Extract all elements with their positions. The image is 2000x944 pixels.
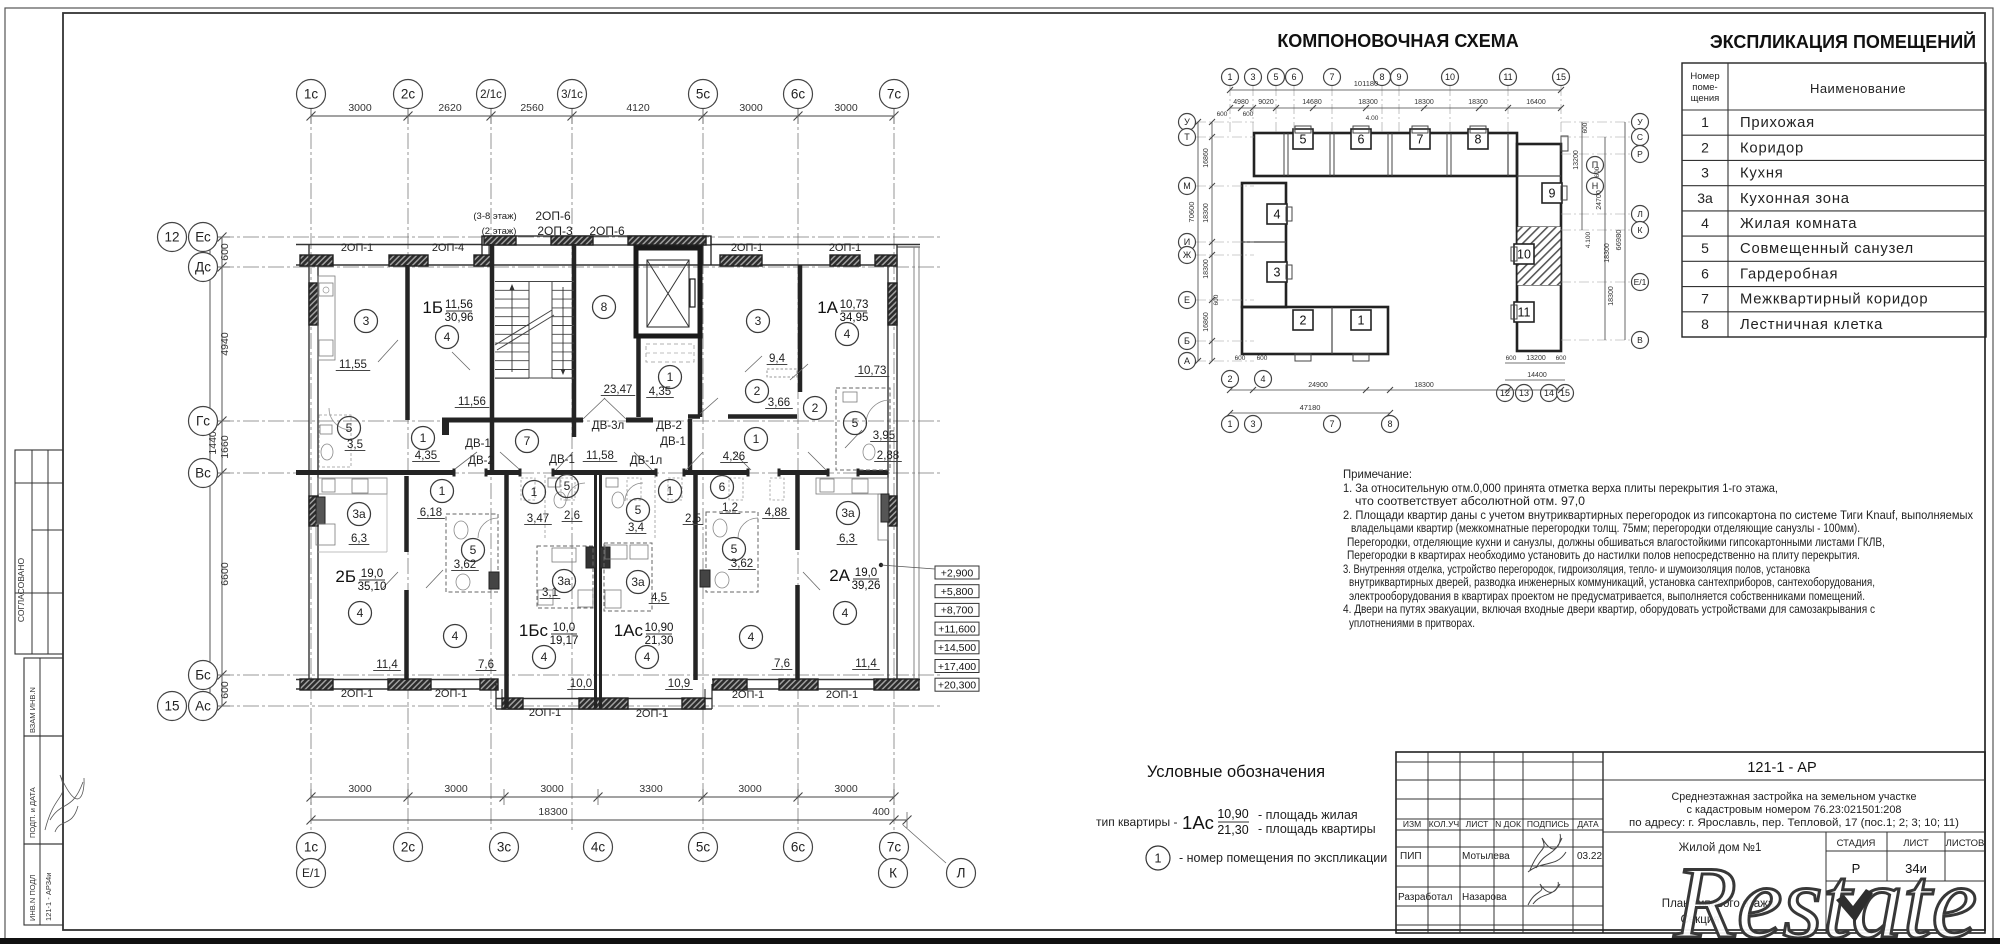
svg-text:Б: Б xyxy=(1184,336,1190,346)
svg-text:Перегородки, отделяющие кухни: Перегородки, отделяющие кухни и санузлы,… xyxy=(1347,535,1885,549)
svg-text:Дс: Дс xyxy=(195,260,211,275)
svg-text:18300: 18300 xyxy=(1468,99,1488,106)
room number 4 xyxy=(836,323,859,346)
room number 1 xyxy=(523,481,546,504)
unit box 6 xyxy=(1351,129,1371,149)
svg-text:Номер: Номер xyxy=(1690,71,1719,82)
svg-text:4.100: 4.100 xyxy=(1585,231,1592,248)
svg-text:600: 600 xyxy=(219,243,231,261)
svg-text:- площадь квартиры: - площадь квартиры xyxy=(1258,822,1376,836)
axis 4 xyxy=(1255,371,1272,388)
unit box 4 xyxy=(1267,204,1287,224)
svg-text:2,88: 2,88 xyxy=(877,450,899,462)
svg-text:+20,300: +20,300 xyxy=(938,680,976,692)
svg-text:7,6: 7,6 xyxy=(478,659,494,671)
window block xyxy=(713,679,747,690)
axis 2/1с xyxy=(477,80,506,109)
window block xyxy=(389,255,428,266)
axis line 1с xyxy=(310,108,312,833)
area 23,47 xyxy=(601,384,636,396)
svg-text:30,96: 30,96 xyxy=(445,312,474,324)
axis 11 xyxy=(1500,69,1517,86)
svg-text:4: 4 xyxy=(452,629,459,643)
svg-text:КОЛ.УЧ: КОЛ.УЧ xyxy=(1429,819,1459,829)
svg-text:Среднеэтажная застройка на зем: Среднеэтажная застройка на земельном уча… xyxy=(1672,791,1917,803)
axis П xyxy=(1587,157,1604,174)
svg-text:2ОП-6: 2ОП-6 xyxy=(535,209,571,223)
unit box 11 xyxy=(1514,302,1534,322)
svg-text:6: 6 xyxy=(1358,133,1365,147)
svg-text:ИЗМ: ИЗМ xyxy=(1403,819,1421,829)
vestibule dashes xyxy=(646,344,694,362)
svg-text:+2,900: +2,900 xyxy=(941,567,974,579)
axis Т xyxy=(1179,129,1196,146)
svg-text:10: 10 xyxy=(1445,72,1455,82)
door swings at ДВ-3л xyxy=(583,398,605,419)
svg-text:1Ас: 1Ас xyxy=(1182,812,1214,833)
window block xyxy=(388,679,431,690)
svg-text:3000: 3000 xyxy=(348,783,372,795)
area 9,4 xyxy=(767,353,788,365)
svg-text:18300: 18300 xyxy=(538,806,567,818)
svg-text:1: 1 xyxy=(439,484,446,498)
svg-text:14400: 14400 xyxy=(1527,372,1547,379)
axis 5с xyxy=(689,80,718,109)
svg-text:Лестничная клетка: Лестничная клетка xyxy=(1740,317,1883,333)
svg-text:8: 8 xyxy=(1379,72,1384,82)
svg-text:2с: 2с xyxy=(401,840,416,855)
svg-text:Л: Л xyxy=(957,866,966,881)
svg-text:5: 5 xyxy=(731,542,738,556)
window block xyxy=(309,496,318,526)
svg-text:5: 5 xyxy=(1273,72,1278,82)
svg-text:3: 3 xyxy=(363,314,370,328)
room number 3 xyxy=(747,310,770,333)
key plan section dividers xyxy=(1283,133,1285,176)
room number 3а xyxy=(627,571,650,594)
svg-text:6: 6 xyxy=(1291,72,1296,82)
party double wall xyxy=(594,471,597,708)
svg-text:70600: 70600 xyxy=(1187,202,1196,223)
room number 4 xyxy=(834,602,857,625)
svg-text:8: 8 xyxy=(1475,133,1482,147)
room number 2 xyxy=(746,380,769,403)
room number 3а xyxy=(837,502,860,525)
kitchen 1Бс zone xyxy=(537,546,593,608)
svg-text:2ОП-1: 2ОП-1 xyxy=(341,242,373,254)
axis Гс xyxy=(189,407,218,436)
svg-text:2ОП-1: 2ОП-1 xyxy=(731,242,763,254)
svg-text:Наименование: Наименование xyxy=(1810,81,1906,96)
svg-text:121-1 - АР34и: 121-1 - АР34и xyxy=(44,873,53,921)
table row 2 xyxy=(1701,139,1804,156)
wall vestibule/corridor vertical xyxy=(688,419,693,471)
svg-text:- номер помещения по экспликац: - номер помещения по экспликации xyxy=(1179,851,1387,865)
axis 3 xyxy=(1245,69,1262,86)
svg-text:ДВ-1: ДВ-1 xyxy=(465,438,491,450)
svg-text:Т: Т xyxy=(1184,132,1190,142)
svg-text:3,95: 3,95 xyxy=(873,430,895,442)
svg-text:4,88: 4,88 xyxy=(765,507,787,519)
area 6,18 xyxy=(417,507,445,519)
svg-text:С: С xyxy=(1637,132,1643,142)
room number 5 xyxy=(723,538,746,561)
axis 2с xyxy=(394,833,423,862)
svg-text:+8,700: +8,700 xyxy=(941,605,974,617)
axis 6с xyxy=(784,833,813,862)
svg-text:4980: 4980 xyxy=(1233,99,1249,106)
svg-text:23,47: 23,47 xyxy=(604,384,633,396)
bottom scan strip xyxy=(0,938,2000,944)
unit box 2 xyxy=(1293,310,1313,330)
svg-text:владельцами квартир (межкомнат: владельцами квартир (межкомнатные перего… xyxy=(1351,521,1860,535)
svg-text:5: 5 xyxy=(564,479,571,493)
key plan building: left wing xyxy=(1242,183,1286,307)
window block xyxy=(875,255,897,266)
svg-text:ПОДПИСЬ: ПОДПИСЬ xyxy=(1527,819,1570,829)
dark balcony door right xyxy=(881,494,889,522)
svg-text:18300: 18300 xyxy=(1358,99,1378,106)
area 10,9 xyxy=(665,678,693,690)
svg-text:7: 7 xyxy=(1701,291,1709,307)
svg-text:3,47: 3,47 xyxy=(527,513,549,525)
svg-text:Гардеробная: Гардеробная xyxy=(1740,266,1838,282)
axis 1 xyxy=(1222,416,1239,433)
svg-text:У: У xyxy=(1637,117,1643,127)
axis line Ас xyxy=(218,705,940,707)
window block xyxy=(830,255,860,266)
bottom dimension line row 1 xyxy=(311,796,894,798)
svg-text:1: 1 xyxy=(1227,419,1232,429)
window block xyxy=(300,679,333,690)
axis М xyxy=(1179,178,1196,195)
svg-text:4120: 4120 xyxy=(626,102,650,114)
svg-text:3,4: 3,4 xyxy=(628,522,645,534)
svg-text:Вс: Вс xyxy=(195,466,211,481)
svg-text:1,2: 1,2 xyxy=(722,502,738,514)
svg-text:3000: 3000 xyxy=(834,783,858,795)
room number 3а xyxy=(348,503,371,526)
svg-text:3000: 3000 xyxy=(540,783,564,795)
svg-text:4,5: 4,5 xyxy=(651,592,667,604)
area 2,88 xyxy=(874,450,902,462)
room number 5 xyxy=(338,417,361,440)
axis 12 xyxy=(158,223,187,252)
window block xyxy=(628,236,706,245)
watermark check glyph xyxy=(1836,889,1873,922)
svg-text:15: 15 xyxy=(1556,72,1566,82)
area 10,73 xyxy=(855,365,890,377)
legend circle xyxy=(1146,846,1170,870)
svg-text:Перегородки в квартирах необх: Перегородки в квартирах необходимо устан… xyxy=(1347,548,1860,562)
svg-text:66980: 66980 xyxy=(1614,230,1623,251)
svg-text:1: 1 xyxy=(753,432,760,446)
svg-text:ВЗАМ ИНВ.N: ВЗАМ ИНВ.N xyxy=(28,687,37,733)
axis И xyxy=(1179,234,1196,251)
svg-text:3000: 3000 xyxy=(739,102,763,114)
svg-text:10,73: 10,73 xyxy=(840,299,869,311)
left margin: ИНВ N ПОДЛ box xyxy=(24,844,63,925)
svg-text:2ОП-1: 2ОП-1 xyxy=(435,688,467,700)
axis 15 xyxy=(1557,385,1574,402)
svg-text:СОГЛАСОВАНО: СОГЛАСОВАНО xyxy=(16,558,26,623)
svg-text:7: 7 xyxy=(1417,133,1424,147)
svg-text:18300: 18300 xyxy=(1414,382,1434,389)
svg-text:2: 2 xyxy=(1300,314,1307,328)
area 4,88 xyxy=(762,507,790,519)
mid separation wall xyxy=(296,470,454,475)
svg-text:600: 600 xyxy=(1594,166,1601,177)
axis Н xyxy=(1587,178,1604,195)
title right part xyxy=(1603,779,1985,781)
svg-text:1Ас: 1Ас xyxy=(614,621,644,640)
svg-text:2ОП-1: 2ОП-1 xyxy=(732,689,764,701)
axis 7с xyxy=(880,833,909,862)
signatures xyxy=(1528,834,1566,872)
axis line 6с xyxy=(797,108,799,833)
svg-text:16400: 16400 xyxy=(1526,99,1546,106)
window block xyxy=(779,679,818,690)
svg-text:2/1с: 2/1с xyxy=(480,89,502,101)
axis Ес xyxy=(189,223,218,252)
wall end caps at mid wall xyxy=(453,469,456,477)
svg-text:электрооборудования в квартир: электрооборудования в квартирах проектом… xyxy=(1349,589,1865,603)
window block xyxy=(874,679,919,690)
room number 3а xyxy=(553,570,576,593)
svg-text:Кухня: Кухня xyxy=(1740,166,1784,182)
svg-text:1: 1 xyxy=(531,485,538,499)
svg-text:2ОП-3: 2ОП-3 xyxy=(537,224,573,238)
window block xyxy=(502,698,523,709)
svg-text:- площадь жилая: - площадь жилая xyxy=(1258,808,1358,822)
svg-text:1: 1 xyxy=(1701,114,1709,130)
table row 5 xyxy=(1701,240,1914,257)
svg-text:03.22: 03.22 xyxy=(1577,851,1602,862)
table row 1 xyxy=(1701,114,1815,131)
axis 6с xyxy=(784,80,813,109)
window block xyxy=(474,255,491,266)
svg-text:4: 4 xyxy=(357,606,364,620)
svg-text:ДВ-1л: ДВ-1л xyxy=(630,455,662,467)
window block xyxy=(579,698,628,709)
table row 3 xyxy=(1701,165,1784,182)
svg-text:4с: 4с xyxy=(591,840,606,855)
svg-text:1: 1 xyxy=(1227,72,1232,82)
stair block bump outer wall xyxy=(482,236,711,245)
axis У xyxy=(1632,114,1649,131)
svg-text:3: 3 xyxy=(1250,72,1255,82)
vent shafts party wall xyxy=(586,547,596,568)
left margin: ПОДП и ДАТА box xyxy=(24,736,84,844)
svg-text:600: 600 xyxy=(219,681,231,699)
svg-text:11,56: 11,56 xyxy=(445,299,473,311)
svg-text:3с: 3с xyxy=(497,840,512,855)
svg-text:2560: 2560 xyxy=(520,102,544,114)
bath 2А side (3,62) xyxy=(700,512,758,592)
svg-text:4: 4 xyxy=(1274,208,1281,222)
svg-text:+11,600: +11,600 xyxy=(938,623,976,635)
room number 4 xyxy=(444,625,467,648)
axis 7с xyxy=(880,80,909,109)
svg-text:с кадастровым номером 76.23:02: с кадастровым номером 76.23:021501:208 xyxy=(1687,804,1902,816)
svg-text:Restate: Restate xyxy=(1673,846,1977,944)
svg-text:Кухонная зона: Кухонная зона xyxy=(1740,191,1850,207)
svg-text:10,73: 10,73 xyxy=(858,365,887,377)
apartment 1Бс xyxy=(519,621,579,647)
elevator shaft xyxy=(636,248,700,336)
svg-text:5: 5 xyxy=(852,416,859,430)
svg-text:ПОДП. и ДАТА: ПОДП. и ДАТА xyxy=(28,787,37,838)
wall 2А left xyxy=(795,471,800,550)
svg-text:4,35: 4,35 xyxy=(415,450,437,462)
svg-text:9: 9 xyxy=(1549,187,1556,201)
axis line Ес xyxy=(218,236,940,238)
svg-text:18300: 18300 xyxy=(1604,243,1611,263)
svg-text:16860: 16860 xyxy=(1203,148,1210,168)
area 6,3 xyxy=(837,533,858,545)
axis 2 xyxy=(1222,371,1239,388)
unit box 3 xyxy=(1267,262,1287,282)
room number 4 xyxy=(533,646,556,669)
unit box 5 xyxy=(1293,129,1313,149)
svg-text:3. Внутренняя отделка, устройс: 3. Внутренняя отделка, устройство перего… xyxy=(1343,562,1810,576)
svg-text:Совмещенный санузел: Совмещенный санузел xyxy=(1740,241,1914,257)
svg-text:3: 3 xyxy=(1274,266,1281,280)
svg-text:1Бс: 1Бс xyxy=(519,621,549,640)
svg-text:1с: 1с xyxy=(304,87,319,102)
svg-text:Жилая комната: Жилая комната xyxy=(1740,216,1857,232)
area 3,1 xyxy=(540,587,561,599)
room number 1 xyxy=(745,428,768,451)
svg-text:Н: Н xyxy=(1592,181,1599,191)
1А hall fixtures xyxy=(767,369,797,377)
стадия лист листов xyxy=(1825,832,1827,933)
svg-text:2ОП-4: 2ОП-4 xyxy=(432,242,464,254)
hatched section 10 xyxy=(1518,227,1561,285)
svg-text:1: 1 xyxy=(1358,314,1365,328)
stair break diagonal xyxy=(495,310,552,345)
svg-text:5: 5 xyxy=(470,543,477,557)
wall 1А left xyxy=(798,265,803,392)
svg-text:4: 4 xyxy=(444,330,451,344)
svg-text:ЛИСТ: ЛИСТ xyxy=(1466,819,1489,829)
axis Л xyxy=(947,859,976,888)
svg-text:1: 1 xyxy=(667,484,674,498)
svg-text:Назарова: Назарова xyxy=(1462,892,1507,903)
svg-text:35,10: 35,10 xyxy=(358,581,387,593)
kitchen 2А counter xyxy=(816,478,888,540)
svg-text:2ОП-1: 2ОП-1 xyxy=(636,708,668,720)
room number 1 xyxy=(659,480,682,503)
svg-text:3а: 3а xyxy=(631,575,645,589)
svg-text:13200: 13200 xyxy=(1573,150,1580,170)
area 3,5 xyxy=(345,439,366,451)
wall 1Б/3 divider xyxy=(405,265,410,420)
axis 6 xyxy=(1286,69,1303,86)
axis 8 xyxy=(1382,416,1399,433)
svg-text:ПИП: ПИП xyxy=(1400,851,1422,862)
axis line 5с xyxy=(702,108,704,833)
room number 3 xyxy=(355,310,378,333)
door swings xyxy=(455,452,477,469)
bottom bay walls xyxy=(495,684,497,709)
svg-text:1: 1 xyxy=(667,370,674,384)
wall below 1А hall horizontal xyxy=(688,414,700,419)
table row 7 xyxy=(1701,291,1928,308)
axis 9 xyxy=(1391,69,1408,86)
table frame xyxy=(1682,63,1986,337)
axis line 2с xyxy=(407,108,409,833)
axis 1 xyxy=(1222,69,1239,86)
svg-text:6,3: 6,3 xyxy=(351,533,367,545)
svg-text:ДВ-2: ДВ-2 xyxy=(656,420,682,432)
svg-text:ДАТА: ДАТА xyxy=(1577,819,1599,829)
area 2,5 xyxy=(683,513,704,525)
svg-text:7с: 7с xyxy=(887,840,902,855)
window block xyxy=(551,236,593,245)
axis Вс xyxy=(189,459,218,488)
svg-text:24700: 24700 xyxy=(1596,190,1603,210)
axis 15 xyxy=(158,692,187,721)
window block xyxy=(300,255,333,266)
svg-text:3,62: 3,62 xyxy=(454,559,476,571)
svg-text:2ОП-1: 2ОП-1 xyxy=(829,242,861,254)
svg-text:Межквартирный коридор: Межквартирный коридор xyxy=(1740,292,1928,308)
svg-text:9: 9 xyxy=(1396,72,1401,82)
svg-text:ДВ-1: ДВ-1 xyxy=(660,436,686,448)
svg-text:11,4: 11,4 xyxy=(376,659,398,671)
axis 7 xyxy=(1324,69,1341,86)
area 3,95 xyxy=(870,430,898,442)
room number 7 xyxy=(516,430,539,453)
axis К xyxy=(1632,222,1649,239)
stairwell right wall xyxy=(572,244,577,437)
area 1,2 xyxy=(720,502,741,514)
area 2,6 xyxy=(562,510,583,522)
svg-text:600: 600 xyxy=(1213,294,1220,305)
svg-text:В: В xyxy=(1637,335,1643,345)
svg-text:Е/1: Е/1 xyxy=(1634,277,1647,287)
area 6,3 xyxy=(349,533,370,545)
svg-text:Бс: Бс xyxy=(195,668,211,683)
svg-text:11,4: 11,4 xyxy=(855,658,877,670)
axis 1с xyxy=(297,833,326,862)
svg-text:7,6: 7,6 xyxy=(774,658,790,670)
axis У xyxy=(1179,114,1196,131)
window block xyxy=(682,698,705,709)
key plan left dims xyxy=(1211,122,1213,361)
svg-text:уплотнениями в притворах.: уплотнениями в притворах. xyxy=(1349,616,1475,630)
unit box 1 xyxy=(1351,310,1371,330)
svg-text:11,58: 11,58 xyxy=(586,450,614,462)
window block xyxy=(484,236,516,245)
svg-text:6,3: 6,3 xyxy=(839,533,855,545)
exterior left wall xyxy=(308,244,310,690)
area 11,4 xyxy=(852,658,880,670)
room number 1 xyxy=(431,480,454,503)
svg-text:М: М xyxy=(1183,181,1191,191)
svg-text:6: 6 xyxy=(719,480,726,494)
svg-text:4. Двери на путях эвакуации, в: 4. Двери на путях эвакуации, включая вхо… xyxy=(1343,602,1875,616)
svg-text:2: 2 xyxy=(1227,374,1232,384)
svg-text:7: 7 xyxy=(1329,72,1334,82)
svg-text:7: 7 xyxy=(1329,419,1334,429)
svg-text:Коридор: Коридор xyxy=(1740,140,1804,156)
bath 1Бс fixtures xyxy=(545,475,585,540)
axis line Гс xyxy=(218,420,940,422)
dark balcony door left xyxy=(316,497,325,524)
svg-text:Гс: Гс xyxy=(196,414,210,429)
